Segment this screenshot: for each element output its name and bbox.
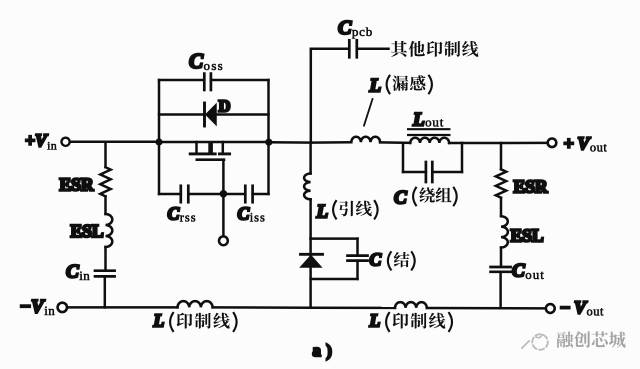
- capacitor C_iss plates: [244, 186, 247, 202]
- svg-text:+Vin: +Vin: [25, 131, 57, 153]
- svg-text:Cout: Cout: [512, 261, 545, 283]
- wire main rail: Lout box to +Vout terminal: [462, 142, 547, 145]
- wire Ciss left: [223, 193, 245, 196]
- diode D cathode bar: [203, 103, 206, 126]
- svg-text:Coss: Coss: [189, 49, 224, 73]
- wire box left vertical: [158, 80, 161, 194]
- wire Cin to bottom rail: [104, 276, 107, 307]
- wire main rail: leakage L to Lout: [380, 141, 410, 144]
- transistor Q1 MOSFET: [190, 142, 229, 160]
- wire Coss top rail left: [159, 79, 204, 82]
- wire Crss left: [159, 193, 181, 196]
- label Lout underline 1: [408, 128, 449, 130]
- wire diode row right: [216, 113, 269, 116]
- svg-text:Ciss: Ciss: [238, 204, 266, 225]
- wire ESR to ESL (output): [500, 198, 503, 217]
- wire Cpcb horizontal left: [311, 48, 350, 51]
- wire Lout box bottom right: [432, 171, 462, 174]
- svg-text:+ Vout: + Vout: [564, 134, 608, 155]
- wire Coss top rail right: [211, 79, 269, 82]
- inductor ESL (output): [501, 216, 508, 247]
- wire Lout box left vertical: [402, 143, 405, 172]
- capacitor C_in plates: [95, 269, 115, 272]
- svg-text:Lout: Lout: [412, 110, 444, 131]
- svg-text:L: L: [316, 202, 329, 223]
- capacitor C_out plates: [491, 266, 511, 269]
- wire middle: lead L to box: [309, 199, 312, 238]
- svg-text:ESR: ESR: [60, 175, 94, 195]
- inductor ESL (input): [106, 214, 113, 247]
- wire bottom rail: -Vin to left printed L: [67, 306, 177, 309]
- svg-text:ESR: ESR: [514, 177, 548, 197]
- capacitor C winding plates: [425, 162, 428, 182]
- gate terminal circle: [219, 236, 228, 245]
- wire gate node to terminal: [222, 194, 225, 237]
- svg-text:L: L: [153, 311, 165, 331]
- wire Lout box right vertical: [461, 143, 464, 172]
- capacitor C_oss plates: [203, 74, 206, 90]
- label other printed lines (text): [391, 41, 478, 57]
- inductor L lead (vertical coil): [304, 174, 311, 200]
- svg-text:D: D: [219, 97, 231, 116]
- svg-text:ESL: ESL: [71, 221, 104, 241]
- wire middle: through diode to bottom rail: [309, 239, 312, 308]
- wire Lout box bottom left: [403, 171, 426, 174]
- wire bottom rail: to middle branch: [213, 306, 311, 309]
- diode D2 cathode bar: [301, 253, 323, 256]
- wire box right vertical: [267, 80, 270, 194]
- resistor ESR (output): [496, 169, 506, 197]
- wire main rail: box to Cpcb node: [269, 141, 312, 144]
- wire Cpcb vertical: [310, 49, 313, 143]
- watermark text: [557, 331, 626, 348]
- wire bottom rail: middle to right printed L: [311, 306, 395, 309]
- wire Ciss right: [253, 193, 269, 196]
- svg-text:Cpcb: Cpcb: [338, 17, 373, 39]
- capacitor C_rss plates: [179, 186, 182, 202]
- wire Crss right: [188, 193, 223, 196]
- wire junction box top: [311, 237, 358, 240]
- pointer line from L leakage label: [364, 99, 373, 126]
- inductor L printed-line (right): [395, 302, 427, 308]
- inductor Lout: [410, 138, 449, 143]
- svg-text:Crss: Crss: [168, 204, 197, 225]
- svg-text:− Vout: − Vout: [560, 298, 605, 319]
- wire junction box right upper: [356, 239, 359, 256]
- wire right branch: rail to ESR: [500, 143, 503, 169]
- svg-text:Cin: Cin: [66, 262, 90, 284]
- terminal -Vin circle: [58, 303, 67, 312]
- diode D2 triangle: [301, 256, 321, 267]
- wire main rail: node to leakage inductor: [311, 141, 351, 144]
- wire main rail: +Vin to left box junction: [70, 141, 160, 144]
- junction dot: gate node: [220, 190, 228, 198]
- junction dot: rail left of MOSFET: [155, 138, 162, 145]
- wire middle: rail node to lead L: [309, 143, 312, 174]
- wire junction box right lower: [356, 261, 359, 279]
- wire ESL to Cout: [500, 248, 503, 267]
- svg-text:C: C: [370, 250, 382, 270]
- wire junction box bottom: [311, 278, 358, 281]
- wire bottom rail: to -Vout terminal: [427, 307, 546, 310]
- svg-text:a ): a ): [313, 341, 332, 360]
- terminal -Vout circle: [546, 304, 555, 313]
- svg-text:ESL: ESL: [511, 226, 544, 246]
- wire main rail: across MOSFET box: [159, 141, 269, 144]
- wire Cpcb horizontal right: [357, 48, 389, 51]
- diode D triangle: [206, 104, 216, 124]
- wire gate lead down: [222, 160, 225, 194]
- junction dot: rail right of MOSFET: [265, 139, 272, 146]
- svg-text:L: L: [369, 311, 381, 331]
- resistor ESR (input): [100, 167, 110, 196]
- capacitor C junction plates: [348, 254, 368, 257]
- svg-text:C: C: [394, 188, 407, 209]
- capacitor C_pcb plates: [348, 40, 351, 57]
- label Lout underline 2: [408, 134, 449, 136]
- watermark logo: [522, 334, 548, 350]
- terminal +Vout circle: [548, 139, 557, 148]
- wire diode row left: [159, 113, 204, 116]
- wire main rail: Lout bumps to box right: [449, 142, 462, 145]
- wire Cout to bottom rail: [499, 272, 502, 308]
- svg-text:L: L: [369, 76, 382, 97]
- wire ESR to ESL: [104, 196, 107, 214]
- terminal +Vin circle: [62, 138, 70, 146]
- svg-text:−Vin: −Vin: [20, 297, 56, 319]
- wire left branch: rail to ESR: [104, 142, 107, 167]
- inductor L (leakage): [351, 137, 380, 142]
- inductor L printed-line (left): [178, 301, 213, 307]
- wire ESL to Cin: [104, 247, 107, 271]
